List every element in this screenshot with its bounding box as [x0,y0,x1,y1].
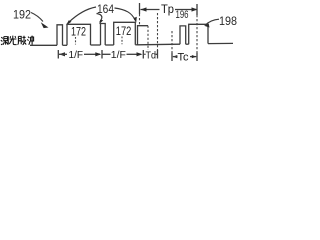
dash before Td [144,53,145,55]
arrow left [59,52,65,56]
svg-text:Td: Td [146,49,157,61]
dimension Tp left tick [139,3,141,14]
tick Td right [157,50,159,59]
pulse group1 first pulse [57,25,63,46]
svg-text:172: 172 [116,24,132,38]
leader 164 to group2 [97,14,102,23]
pulse group2 first pulse [101,24,106,46]
dashed vertical Td right [157,13,159,51]
dimension Tc: left tick [171,53,173,62]
svg-text:Tp: Tp [161,4,174,16]
dimension 1/F first: left tick [57,50,59,59]
line and right arrow [127,53,142,55]
svg-text:1/F: 1/F [111,49,126,61]
wire [186,43,189,45]
leader 164 to group1 [69,7,97,23]
leader 164 to short pulse [115,8,136,20]
dimension vertical at x197 [196,4,198,15]
dimension Tp right arrow [175,9,197,11]
leader from 198 [206,19,220,25]
line and right arrow [84,53,100,55]
dashed stub in group2 pulse [121,37,123,45]
wire baseline right end [208,42,233,44]
svg-text:1/F: 1/F [69,49,84,61]
dashed vertical Tc left [171,31,173,53]
wire [63,44,68,46]
leader arrow from 192 [31,13,43,22]
wire [135,44,137,46]
wire baseline middle [138,43,181,46]
pulse group1 wide pulse [67,24,91,45]
dimension Tp left arrow [141,9,160,11]
dimension 1/F second: left arrow [103,53,111,55]
dashed stub in group1 pulse [75,37,77,45]
wire [105,44,114,46]
svg-text:198: 198 [219,14,237,28]
wire [91,44,101,46]
line and right arrow [190,56,196,58]
svg-text:196: 196 [176,9,189,21]
svg-text:Tc: Tc [178,51,190,63]
pulse group3 first pulse [180,26,186,44]
wire baseline start [30,44,57,46]
svg-text:164: 164 [97,2,114,16]
svg-text:172: 172 [71,24,86,38]
svg-text:192: 192 [13,8,31,22]
pulse group3 wide pulse [189,24,208,44]
label 激光脉冲 [1,36,34,45]
pulse group2 wide pulse [114,22,136,45]
short pulse with dashed trailing edge [138,26,149,45]
